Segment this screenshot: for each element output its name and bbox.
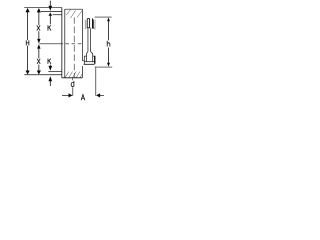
label X lower	[37, 59, 40, 64]
h extension bottom	[95, 66, 113, 68]
socket ring 1 bottom	[87, 27, 91, 29]
extension line level L5	[48, 70, 62, 72]
label K lower	[48, 59, 51, 64]
A line left	[62, 94, 69, 96]
socket ring 2 bottom	[92, 27, 95, 29]
wall top	[65, 8, 83, 10]
arrowhead K bottom inner down	[49, 66, 53, 71]
label K upper	[48, 25, 51, 30]
d centerline dash	[71, 78, 73, 80]
socket ring 2	[92, 19, 94, 28]
centerline dashed part	[65, 43, 81, 45]
socket ring 1	[87, 19, 89, 28]
socket outer left	[84, 20, 86, 29]
pipe left	[87, 28, 89, 51]
extension line bottom L6	[24, 74, 62, 76]
wall right edge upper	[81, 9, 83, 61]
dimension K upper stems	[49, 1, 51, 6]
wall bottom	[62, 77, 83, 79]
arrowhead K top inner up	[49, 12, 53, 15]
dimension K lower stems	[49, 65, 51, 67]
centerline solid part	[39, 43, 63, 45]
dimension h line	[108, 21, 110, 40]
flange right bar	[94, 56, 96, 64]
dimension X lower line	[38, 48, 40, 58]
extension line level B	[53, 14, 62, 16]
arrowhead X top	[37, 8, 41, 12]
A tick left	[72, 87, 74, 96]
arrowhead K bottom outer up	[49, 76, 53, 81]
A line right	[100, 94, 104, 96]
flange bottom cap	[84, 63, 95, 65]
wall hatch bottom	[65, 72, 69, 78]
arrowhead A left	[69, 93, 73, 97]
socket ring 2 outer faint	[94, 19, 96, 29]
extension line level A	[41, 10, 62, 12]
label h	[107, 41, 110, 47]
wall face	[64, 9, 66, 78]
dimension X upper line	[38, 12, 40, 25]
flange top left	[84, 55, 86, 57]
vertical centerline dash-dot	[73, 17, 75, 77]
h extension top	[95, 16, 112, 18]
flare left	[87, 51, 88, 61]
label H	[26, 40, 29, 45]
arrowhead h bottom	[107, 63, 110, 67]
arrowhead K top outer down	[49, 6, 53, 11]
flare right	[90, 51, 92, 61]
pipe right	[89, 28, 91, 51]
arrowhead H top	[26, 8, 30, 12]
wall jog	[82, 60, 84, 62]
arrowhead H bottom	[26, 71, 30, 75]
extension line top level L1	[24, 7, 62, 9]
flange shelf	[84, 61, 95, 63]
arrowhead h top	[107, 17, 110, 21]
A tick right	[95, 68, 97, 96]
label A	[81, 95, 85, 101]
arrowhead X center up	[37, 44, 40, 48]
wall right edge lower	[81, 66, 83, 78]
plate left edge	[61, 8, 63, 78]
wall hatch top	[66, 10, 70, 16]
flange top right	[93, 55, 96, 57]
arrowhead X bottom	[37, 71, 41, 75]
arrowhead X center down	[37, 39, 40, 44]
flange left edge	[83, 56, 85, 65]
label d	[71, 81, 74, 87]
dimension H line	[27, 12, 29, 40]
arrowhead A right	[96, 93, 100, 97]
label X upper	[37, 25, 40, 30]
